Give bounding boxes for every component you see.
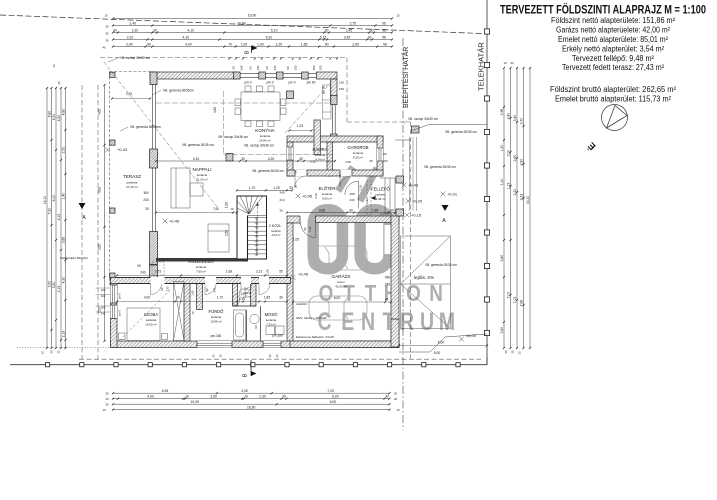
svg-text:GARÁZS: GARÁZS [332,273,351,279]
svg-text:240: 240 [279,191,284,195]
level marker entry +0,45 [296,193,313,198]
svg-text:100: 100 [101,288,106,292]
svg-text:30: 30 [394,392,398,396]
left dimension chain 4 [57,87,62,349]
svg-text:1,25: 1,25 [275,42,282,46]
annotation vb oszlop right [404,117,438,124]
svg-text:+0,45: +0,45 [298,272,309,277]
svg-text:KAMRA: KAMRA [313,147,328,152]
svg-text:MOSÓ: MOSÓ [265,312,279,317]
terrace post 1 [110,72,115,77]
svg-text:3,70: 3,70 [520,118,524,125]
property boundary fence south with posts [10,357,487,367]
right dimension chain 4 [520,67,525,349]
svg-text:O: O [319,281,334,306]
kitchen column post 1 [287,91,294,99]
left dimension chain 1 [43,87,48,349]
annotation vb gerenda 2 [120,125,161,131]
top dimension row 2 [112,21,393,26]
bottom dimension row 4 [112,406,391,411]
svg-text:Padlásfeljáró 80x(110): Padlásfeljáró 80x(110) [60,256,88,260]
svg-text:150: 150 [294,65,298,70]
svg-text:150: 150 [382,159,387,163]
svg-text:7,00: 7,00 [507,292,511,299]
svg-text:FELLÉPŐ: FELLÉPŐ [371,187,391,192]
svg-text:3,50: 3,50 [52,282,56,289]
reference dotted line southwest [17,347,110,349]
svg-text:150: 150 [318,65,322,70]
wall wc south [233,305,257,307]
top dimension left edge labels [102,25,109,50]
svg-text:30: 30 [510,61,514,65]
svg-text:2,80: 2,80 [520,159,524,166]
svg-text:6,00: 6,00 [334,296,340,300]
svg-text:1,85: 1,85 [264,296,270,300]
svg-text:150: 150 [312,65,316,70]
living room facade pier 2 [150,232,158,265]
left dimension chain 2 [48,87,53,349]
garage door arc [301,223,316,238]
svg-text:16,10: 16,10 [43,196,47,205]
bathroom niche wall [197,284,203,310]
north wall window dims rotated [232,65,323,70]
svg-text:+0,45: +0,45 [302,193,313,198]
svg-text:Földszint nettó alapterülete:: Földszint nettó alapterülete: 151,86 m² [551,16,675,25]
svg-text:2,10: 2,10 [314,193,318,199]
svg-text:6,10: 6,10 [52,195,56,202]
bottom dimension edge labels [102,392,400,413]
svg-text:7,20: 7,20 [327,389,334,393]
svg-text:4,30: 4,30 [62,277,66,284]
svg-text:40: 40 [102,46,106,50]
svg-text:10: 10 [185,395,189,399]
svg-text:Erkély nettó alapterület: 3,54: Erkély nettó alapterület: 3,54 m² [562,44,664,53]
svg-text:1,60: 1,60 [191,290,195,296]
bathroom bathtub [233,295,246,341]
svg-text:VB. gerenda 36/55cm: VB. gerenda 36/55cm [163,89,194,93]
garage car 1 [309,246,367,270]
svg-text:30: 30 [289,186,293,190]
svg-text:30: 30 [105,392,109,396]
svg-text:96: 96 [383,42,387,46]
entry dashed verticals [366,176,368,216]
svg-text:42,00 m²: 42,00 m² [335,284,346,288]
svg-text:VB. gerenda 30/30 cm: VB. gerenda 30/30 cm [425,263,457,267]
svg-text:FÜRDŐ: FÜRDŐ [209,309,225,314]
laundry west partition [260,306,262,341]
svg-text:30: 30 [511,350,515,354]
svg-text:90: 90 [303,227,307,231]
bathroom door dims rotated [160,286,217,314]
svg-text:30: 30 [282,395,286,399]
svg-text:GARDRÓB: GARDRÓB [347,145,368,150]
annotation vb gerenda 1 [152,89,194,96]
svg-text:30: 30 [105,25,109,29]
svg-text:1,85: 1,85 [301,42,308,46]
svg-text:5,15: 5,15 [320,35,327,39]
svg-text:2,30: 2,30 [259,395,266,399]
level marker living +0,45 [163,218,180,223]
ceiling beam line horizontal 2 [156,102,330,104]
top dimension row 3 [112,28,393,33]
svg-text:30: 30 [105,32,109,36]
garage west wall [287,223,293,347]
svg-text:30: 30 [385,395,389,399]
svg-text:2,75: 2,75 [155,270,161,274]
top dimension total 16,90 [104,14,400,20]
attic hatch dashed rect [152,262,164,275]
property boundary telekhatar east vertical [484,0,489,365]
svg-text:TERASZ: TERASZ [123,174,141,179]
svg-text:1,13: 1,13 [239,297,245,301]
svg-text:ELŐTÉR: ELŐTÉR [319,186,336,191]
roof outline dashed northeast step [346,58,348,123]
svg-text:16,90: 16,90 [247,406,256,410]
svg-text:3,35: 3,35 [241,389,248,393]
svg-text:O: O [406,281,421,306]
svg-text:2,75: 2,75 [350,21,357,25]
svg-text:10: 10 [41,351,45,355]
svg-text:4,10: 4,10 [187,28,194,32]
house overhang dashed west [97,85,99,359]
svg-text:3,85: 3,85 [98,244,102,250]
svg-text:VB. oszlop 30x36 cm: VB. oszlop 30x36 cm [218,135,248,139]
svg-text:+0,45: +0,45 [169,218,180,223]
left window dims 100 240 [96,288,111,316]
svg-text:5,00: 5,00 [434,351,441,355]
svg-text:60: 60 [383,152,387,156]
svg-text:1,33: 1,33 [297,124,303,128]
staircase [237,196,267,259]
svg-text:VB. gerenda 36/55cm: VB. gerenda 36/55cm [130,125,161,129]
svg-text:2,13: 2,13 [256,270,262,274]
svg-text:2,60: 2,60 [345,160,351,164]
svg-text:75: 75 [294,170,298,174]
svg-text:10,88: 10,88 [237,21,246,25]
svg-text:360: 360 [143,191,149,195]
svg-text:96: 96 [382,21,386,25]
svg-text:7,60: 7,60 [213,207,219,211]
window parapet labels pm0 north wall [244,81,325,95]
level marker +0,15 [405,212,422,217]
driveway roof rectangle with diagonals [401,236,451,329]
svg-text:30: 30 [105,397,109,401]
svg-text:VB. gerenda 30/35 cm: VB. gerenda 30/35 cm [424,165,456,169]
svg-text:6,35: 6,35 [162,389,169,393]
ceiling beam line vertical [223,91,225,155]
wall west of wc [233,284,238,307]
svg-text:4,74 m²: 4,74 m² [315,157,325,161]
svg-text:240: 240 [143,198,149,202]
svg-text:14,00 m²: 14,00 m² [145,322,156,326]
right dimension chain 2 [507,67,512,349]
svg-text:4,00: 4,00 [98,187,102,193]
svg-text:KONYHA: KONYHA [255,128,275,133]
svg-text:Emelet bruttó alapterület: 115: Emelet bruttó alapterület: 115,73 m² [555,94,671,103]
svg-text:4,80: 4,80 [48,111,52,118]
svg-text:1,08: 1,08 [266,269,270,275]
svg-text:1,13: 1,13 [507,183,511,190]
svg-text:7,60 m²: 7,60 m² [196,269,206,273]
watermark CENTRUM text [317,308,455,336]
svg-text:pm 90: pm 90 [307,81,316,85]
svg-text:208: 208 [349,192,354,196]
svg-text:3,60: 3,60 [500,327,504,334]
svg-text:2,60: 2,60 [513,155,517,162]
svg-text:7,03: 7,03 [513,297,517,304]
svg-text:50: 50 [265,66,269,70]
svg-text:3,85: 3,85 [62,237,66,244]
svg-text:VB. oszlop 30x30 cm: VB. oszlop 30x30 cm [120,56,150,60]
svg-text:10: 10 [104,14,108,18]
svg-text:30: 30 [57,81,61,85]
level marker +-0,00 [459,333,477,341]
neighbor fence east gate lines [395,125,487,141]
svg-text:150: 150 [339,81,344,85]
svg-text:3,40: 3,40 [513,115,517,122]
svg-text:10: 10 [396,14,400,18]
svg-text:4,15: 4,15 [57,214,61,221]
entry door arc [345,181,359,208]
fellepo corner pier north [396,176,404,183]
pm 0 rotated west windows [118,292,122,316]
svg-text:4,80: 4,80 [213,107,217,113]
watermark OTTHON text [319,281,443,306]
svg-text:+0,01: +0,01 [447,191,458,196]
svg-text:2,96: 2,96 [500,109,504,116]
svg-text:3,50: 3,50 [210,395,217,399]
svg-text:6,10: 6,10 [271,28,278,32]
pantry and wardrobe door arcs [295,176,351,187]
svg-text:Garázs nettó alapterüelete: 42: Garázs nettó alapterüelete: 42,00 m² [556,26,670,35]
svg-text:96: 96 [254,325,258,329]
interior dim row garage [292,296,392,303]
left dimension chain 5 [62,87,67,349]
svg-text:3,40: 3,40 [507,113,511,120]
south wall of house [111,341,400,348]
svg-text:VB. gerenda 30/35 cm: VB. gerenda 30/35 cm [182,143,214,147]
svg-text:30: 30 [368,35,372,39]
title area list [550,16,676,103]
interior dim row rooms [116,296,288,303]
svg-text:M: M [439,308,455,336]
watermark OC logo [313,167,396,269]
svg-text:30: 30 [153,28,157,32]
svg-text:90: 90 [137,264,141,268]
svg-text:240: 240 [140,271,146,275]
garage car 2 [309,296,367,320]
svg-text:4,00: 4,00 [147,395,154,399]
interior dim row stairs top [236,186,293,191]
svg-text:10: 10 [52,64,56,68]
svg-text:2,45: 2,45 [344,35,351,39]
north wall pier dimension ticks [228,57,338,59]
svg-text:+0,15: +0,15 [411,212,422,217]
svg-text:pm 0: pm 0 [266,81,273,85]
svg-text:1,05: 1,05 [293,238,299,242]
entry rotated dims [314,174,369,204]
svg-text:±0,00: ±0,00 [466,333,477,338]
svg-text:Tervezett fellépő: 9,48 m²: Tervezett fellépő: 9,48 m² [572,54,654,63]
svg-text:kerámia: kerámia [271,229,281,233]
right dimension chain 5 [526,67,531,349]
svg-text:TELEKHATÁR: TELEKHATÁR [477,42,486,91]
north wall solid section [150,72,236,79]
svg-text:VB. oszlop 30x36 cm: VB. oszlop 30x36 cm [244,143,274,147]
svg-text:2,60: 2,60 [225,230,229,236]
svg-text:9,50 m²: 9,50 m² [322,196,332,200]
svg-text:30: 30 [299,157,303,161]
top dimension row 5 [112,42,393,47]
svg-text:55: 55 [279,270,283,274]
svg-text:30: 30 [349,208,353,212]
svg-text:2,10: 2,10 [127,35,134,39]
roof outline dashed south [79,358,481,360]
south wall of pantry-wardrobe wing [287,170,383,177]
svg-text:1,10: 1,10 [500,179,504,186]
svg-text:30: 30 [394,397,398,401]
terrace post 2 [110,140,115,145]
svg-text:10: 10 [191,311,195,315]
svg-text:70: 70 [228,42,232,46]
svg-text:24,84 m²: 24,84 m² [259,138,270,142]
top dimension row 4 [112,35,393,40]
svg-text:450: 450 [385,276,391,280]
svg-text:30: 30 [105,39,109,43]
svg-text:T: T [365,281,377,306]
svg-text:7,23 m²: 7,23 m² [266,322,276,326]
svg-text:2,19: 2,19 [57,286,61,293]
corridor south wall interior line [117,277,291,284]
svg-text:40: 40 [147,42,151,46]
svg-text:9,48 m²: 9,48 m² [376,197,386,201]
kitchen east wall stub to pantry [314,120,320,155]
north wall northeast solid section [317,72,338,79]
wall between pantry and wardrobe [327,142,333,176]
annotation vb oszlop top left [108,56,150,62]
svg-text:90: 90 [160,287,164,291]
svg-text:50: 50 [232,66,236,70]
west wall of bedroom section [111,278,118,348]
svg-text:pm.180: pm.180 [272,334,283,338]
svg-text:szellőző: szellőző [296,302,307,306]
terrace dashed edge west [109,72,111,286]
svg-text:30: 30 [241,157,245,161]
svg-text:210: 210 [279,198,284,202]
svg-text:4,40: 4,40 [185,42,192,46]
bottom dimension row 3 [112,400,391,405]
svg-text:3,20: 3,20 [268,157,275,161]
svg-text:pm 0: pm 0 [118,292,122,299]
svg-text:30: 30 [504,350,508,354]
terrace dashed edge north [110,71,151,73]
svg-text:30: 30 [279,296,283,300]
svg-text:2,10: 2,10 [132,28,139,32]
svg-text:Tervezett fedett terasz: 27,43: Tervezett fedett terasz: 27,43 m² [562,63,664,72]
svg-text:2,35: 2,35 [310,160,316,164]
svg-text:1,70: 1,70 [249,186,256,190]
bedroom wardrobe [174,282,185,341]
svg-text:6,00: 6,00 [330,400,337,404]
svg-text:2,19: 2,19 [62,331,66,338]
svg-text:30: 30 [50,350,54,354]
living room facade base pier [150,265,158,278]
svg-text:1,20: 1,20 [273,186,280,190]
kitchen counter east [323,85,332,119]
living room facade pier 1 [150,149,158,168]
garage west wall corner block [287,216,300,223]
fellepo corner pier south [396,209,404,216]
svg-text:SZOBA: SZOBA [144,312,158,317]
svg-text:Földszint bruttó alapterület:: Földszint bruttó alapterület: 262,65 m² [550,85,676,94]
svg-text:R: R [400,308,414,336]
svg-text:150: 150 [339,87,344,91]
svg-text:1,19: 1,19 [359,185,363,191]
svg-text:5,00: 5,00 [438,341,445,345]
svg-text:pm 0: pm 0 [244,81,251,85]
svg-text:2,20: 2,20 [513,189,517,196]
svg-text:NAPPALI: NAPPALI [192,167,211,172]
svg-text:30: 30 [279,209,283,213]
svg-text:7,20: 7,20 [48,208,52,215]
wall east of wc [251,284,257,307]
svg-text:51,24 m²: 51,24 m² [196,177,207,181]
level marker terrace +0,43 [105,147,128,152]
roof outline dashed west [81,85,83,359]
svg-text:3,85: 3,85 [319,208,326,212]
svg-text:10: 10 [518,351,522,355]
svg-text:240: 240 [239,65,243,70]
svg-text:pm 90: pm 90 [322,86,326,95]
bedroom bed [119,308,168,341]
ceiling beam diagonal kitchen [284,77,336,134]
garage south wall [290,341,399,348]
svg-text:parketta: parketta [127,181,138,185]
svg-text:2,00: 2,00 [507,150,511,157]
svg-text:7,66: 7,66 [520,300,524,307]
east wall of kitchen section [331,79,338,142]
svg-text:+0,43: +0,43 [408,182,419,187]
interior dim labels corridor [116,270,288,277]
svg-text:30: 30 [370,28,374,32]
living room sofa group [171,168,229,252]
kitchen column post 2 [226,154,233,162]
left dimension chain 3 [52,87,57,349]
corridor north wall band [156,258,248,262]
svg-text:Elektromos falikazán 24 kW: Elektromos falikazán 24 kW [296,335,334,339]
bedroom ceiling diagonal dashed [119,288,172,341]
svg-text:90: 90 [286,66,290,70]
svg-text:96: 96 [382,28,386,32]
svg-text:30: 30 [325,28,329,32]
north compass [602,105,628,131]
svg-text:TERVEZETT FÖLDSZINTI ALAPRAJZ: TERVEZETT FÖLDSZINTI ALAPRAJZ M = 1:100 [500,4,706,17]
driveway gate line [399,334,487,352]
stair tread center marks [255,217,258,256]
svg-text:1,30: 1,30 [500,145,504,152]
svg-text:30: 30 [294,185,298,189]
north wall of pantry-wardrobe wing [287,136,383,142]
svg-text:1,40: 1,40 [62,193,66,200]
svg-text:5,26 m²: 5,26 m² [353,155,363,159]
svg-text:1,85: 1,85 [372,208,379,212]
svg-text:3,50: 3,50 [48,281,52,288]
bottom dimension row 2 [112,395,391,400]
svg-text:pm 0: pm 0 [288,81,295,85]
svg-text:10: 10 [503,61,507,65]
svg-text:6,10: 6,10 [266,35,273,39]
svg-text:4,00: 4,00 [144,296,150,300]
